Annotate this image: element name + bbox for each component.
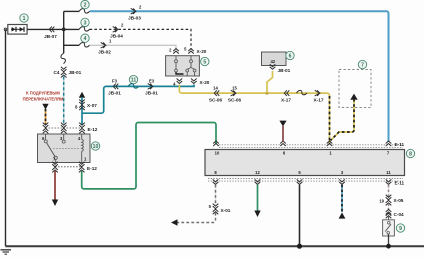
connector row E-12 bottom [52, 162, 97, 173]
svg-text:10: 10 [215, 151, 220, 156]
connector X-20 top pins 2,5 [169, 47, 207, 55]
svg-text:JB-02: JB-02 [98, 50, 111, 55]
svg-text:7: 7 [361, 63, 364, 69]
wire: branch 4 stub [64, 44, 79, 46]
connector JB-03 [128, 4, 142, 20]
circled 8 [406, 149, 414, 157]
svg-text:15: 15 [232, 85, 237, 90]
wire: dashed to arrow left [177, 213, 216, 223]
svg-text:К ПОДРУЛЕВЫМ: К ПОДРУЛЕВЫМ [26, 91, 60, 96]
svg-text:SC-06: SC-06 [209, 98, 223, 103]
wire: dashed branch 3 to X-20 pin 5 [90, 29, 191, 49]
wire: black from pin 5 to ground [299, 185, 301, 246]
connector JB-07 [44, 27, 57, 39]
ground symbol [1, 250, 12, 254]
svg-text:6: 6 [289, 54, 292, 60]
parking brake switch (9) [383, 217, 395, 246]
svg-text:JB-01: JB-01 [69, 70, 82, 75]
svg-text:X-05: X-05 [394, 198, 404, 203]
wire: FL output to junction [27, 28, 79, 30]
wire: orange striped to E-12 pin 6 [45, 109, 47, 125]
connector X-01 pin 5 [209, 204, 231, 215]
svg-text:2: 2 [84, 3, 87, 9]
squiggle on teal run [128, 84, 138, 88]
circled 9 [396, 224, 404, 232]
connector E-11 top row pins [213, 141, 404, 147]
svg-text:11: 11 [131, 78, 137, 84]
wire: green to combination meter pin 10 [82, 123, 216, 189]
svg-text:5: 5 [203, 60, 206, 66]
svg-text:JB-04: JB-04 [110, 34, 123, 39]
squiggle branch 3 [79, 27, 89, 31]
svg-text:X-01: X-01 [221, 208, 231, 213]
svg-text:19: 19 [379, 199, 384, 204]
circled 6 [286, 51, 294, 59]
squiggle branch 4 [79, 43, 89, 47]
connector JB-04 [110, 23, 124, 39]
wire: dashed from pin 11 to X-05 [388, 185, 390, 197]
connector E-11 bottom row pins [213, 179, 405, 185]
connector JB-01 E3 (right) [145, 79, 158, 96]
wire: yellow from X-20 pin 4 to SC-06 run [179, 85, 329, 144]
wire: distribution trunk [63, 11, 65, 53]
wire: grey dashed from pin 8 to X-01 [215, 185, 217, 206]
svg-text:11: 11 [386, 170, 391, 175]
node: ground junction right [386, 244, 391, 249]
wire: green from pin 12 [257, 185, 259, 211]
circled 10 [91, 142, 99, 150]
node: ground junction [297, 244, 302, 249]
svg-text:3: 3 [84, 20, 87, 26]
connector X-05 pin 19 [379, 195, 403, 206]
circled 3 [81, 18, 89, 26]
connector JB-01 below fuse [270, 64, 291, 73]
svg-text:42: 42 [270, 59, 275, 64]
ECU connector strip bottom [208, 179, 403, 182]
svg-text:JB-07: JB-07 [44, 34, 57, 39]
svg-text:X-07: X-07 [87, 103, 97, 108]
connector SC-06 pin 15 [228, 85, 242, 102]
circled 4 [81, 34, 89, 42]
svg-text:C-04: C-04 [394, 212, 405, 217]
circled 1 [20, 14, 28, 22]
svg-text:JB-01: JB-01 [108, 91, 121, 96]
wire: left battery bus (vertical) [5, 29, 7, 246]
svg-text:X-17: X-17 [314, 98, 324, 103]
circled 7 [358, 60, 366, 68]
arrow inside box 7 [350, 94, 357, 100]
ECU bottom pin numbers [214, 170, 391, 175]
svg-text:12: 12 [255, 170, 260, 175]
wire: dark red to pin 6 [282, 126, 284, 142]
wire: dashed X-05 to C-04 [388, 204, 390, 210]
svg-text:F3: F3 [112, 79, 118, 84]
label: to steering column switches (red) [23, 91, 64, 102]
svg-text:E3: E3 [149, 79, 155, 84]
svg-text:E-12: E-12 [87, 166, 97, 171]
wire: branch 2 stub [64, 10, 79, 12]
fusible link FL (1) box [4, 25, 27, 35]
svg-text:4: 4 [84, 36, 87, 42]
svg-text:X-20: X-20 [200, 80, 210, 85]
svg-text:JB-01: JB-01 [278, 68, 291, 73]
wire: yellow-black striped drop to pin 1 [329, 96, 331, 144]
wire: blue feed circuit 2 [90, 11, 389, 142]
svg-text:10: 10 [93, 144, 99, 150]
ECU box (8) [205, 150, 405, 176]
steering column switch (10) box [38, 134, 91, 163]
svg-text:E-11: E-11 [395, 181, 405, 186]
node: trunk junction [62, 28, 66, 32]
svg-text:JB-01: JB-01 [145, 91, 158, 96]
dashed box (7) [339, 70, 371, 108]
connector X-20 bottom pins 4,3 [173, 79, 210, 87]
squiggle branch 2 [79, 9, 89, 13]
svg-text:ПЕРЕКЛЮЧАТЕЛЯМ: ПЕРЕКЛЮЧАТЕЛЯМ [23, 97, 64, 102]
wire: red output to flasher arrow [54, 171, 56, 200]
connector X-07 pin 8 [75, 100, 97, 111]
connector X-17 right [314, 90, 324, 102]
squiggle trunk vertical [61, 53, 65, 63]
fuse box (6) [262, 52, 287, 66]
ECU connector strip top [219, 145, 403, 148]
svg-text:14: 14 [213, 85, 218, 90]
arrow from steering switches (X-07 feed) [79, 92, 85, 98]
circled 2 [81, 0, 89, 8]
svg-text:E-11: E-11 [395, 142, 405, 147]
svg-text:JB-03: JB-03 [128, 16, 141, 21]
svg-text:SC-06: SC-06 [228, 98, 242, 103]
relay (5) box [166, 56, 200, 76]
arrow at end of pin 3 wire [339, 212, 346, 218]
wire: yellow up to fuse box 6 [267, 71, 273, 93]
ECU top pin numbers [215, 151, 390, 156]
svg-text:1: 1 [23, 16, 26, 22]
connector row E-12 top [43, 123, 98, 134]
svg-text:8: 8 [409, 152, 412, 158]
wire: striped from box 7 merging to pin 1 [331, 99, 355, 141]
wire: blue striped from pin 3 [341, 185, 343, 212]
connector SC-06 pin 14 [209, 85, 223, 102]
arrow into pin 6 [279, 121, 286, 127]
squiggle on yellow run [297, 90, 307, 94]
connector X-17 left [281, 90, 291, 102]
circled 5 [201, 57, 209, 65]
svg-text:9: 9 [399, 226, 402, 232]
connector C-04 [386, 209, 404, 218]
svg-text:X-17: X-17 [281, 98, 291, 103]
connector JB-01 F3 (left) [108, 79, 121, 96]
svg-text:E-12: E-12 [88, 127, 98, 132]
connector C4 / JB-01 on trunk [54, 67, 82, 78]
circled 11 [129, 75, 137, 83]
svg-text:C4: C4 [54, 70, 60, 75]
wire: grey branch 4 to X-20 pin 2 [90, 45, 176, 49]
wire: teal X-07 to E-12 [81, 97, 83, 125]
ground rail (bottom bus) [6, 245, 424, 247]
svg-text:X-20: X-20 [197, 49, 207, 54]
connector JB-02 [98, 39, 112, 55]
wire: teal branch to JB-01 run [82, 85, 194, 114]
wire: teal dashed trunk to switch pin 3 [63, 77, 65, 126]
arrow down to steering switches [42, 104, 48, 110]
node: yellow junction to JB-01 fuse [265, 92, 268, 95]
